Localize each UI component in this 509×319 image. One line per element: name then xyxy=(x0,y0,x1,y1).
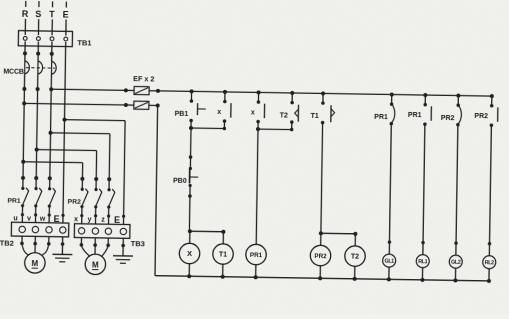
wire E down to TB3 xyxy=(123,121,125,224)
lamp RL2 xyxy=(482,256,495,283)
node T supply label xyxy=(49,1,55,19)
wire X second branch down to PR1 coil xyxy=(256,122,258,245)
coil T2 xyxy=(344,246,365,281)
terminal block TB1 xyxy=(18,31,91,48)
wire T to TB1 xyxy=(51,19,53,35)
wire E TB1 to TB2 xyxy=(63,42,66,223)
coil T1 xyxy=(212,244,233,279)
wire S tap to PR2 pole y xyxy=(37,149,97,152)
motor M2 xyxy=(85,254,106,275)
wire S TB1 to MCCB xyxy=(37,42,39,61)
wire R below MCCB xyxy=(23,74,25,178)
label u v w E xyxy=(13,213,64,224)
ground for TB2 E xyxy=(52,244,72,262)
relay contact X second xyxy=(251,90,265,123)
timer contact T1 xyxy=(310,91,334,124)
node E tap to TB3 xyxy=(62,118,66,122)
node T tap xyxy=(48,131,52,135)
wire T phase to fuse row 1 xyxy=(51,89,126,90)
relay contact PR1 NO xyxy=(408,93,432,126)
wire PB0 to coil bridge xyxy=(188,196,191,231)
wire PR1 NC to lamp GL1 xyxy=(389,124,391,254)
node R tap xyxy=(21,160,25,164)
wire R to TB1 xyxy=(24,19,26,35)
lamp RL1 xyxy=(416,255,429,282)
wire PB1 branch down xyxy=(190,121,193,157)
wire PR1 NO to lamp RL1 xyxy=(423,124,425,254)
wire S to TB1 xyxy=(37,19,39,35)
timer contact T2 xyxy=(280,91,299,124)
relay contact X holding xyxy=(217,90,231,123)
wire T tap to PR2 pole z xyxy=(51,132,110,135)
wire R tap to PR2 pole x xyxy=(23,161,82,164)
relay contact PR2 NC xyxy=(441,93,462,126)
wire S below MCCB xyxy=(36,74,38,178)
coil PR1 xyxy=(245,244,266,279)
contactor PR1 main poles xyxy=(7,176,56,223)
wire X holding to PB1 branch xyxy=(223,121,225,128)
wire T1 branch down xyxy=(321,123,323,234)
ground for TB3 E xyxy=(113,245,133,263)
pushbutton PB0 xyxy=(173,155,199,198)
wire T below MCCB xyxy=(50,74,52,178)
fuse EF lower xyxy=(124,101,160,110)
wires TB2 to motor 1 xyxy=(20,236,64,256)
coil X xyxy=(179,243,200,278)
motor M1 xyxy=(25,253,46,274)
wire PR2 NO to lamp RL2 xyxy=(489,125,491,255)
lamp GL1 xyxy=(382,254,395,281)
wire T TB1 to MCCB xyxy=(51,42,53,61)
relay contact PR2 NO xyxy=(474,94,498,127)
wire E tap across xyxy=(65,119,126,122)
coil PR2 xyxy=(310,245,331,280)
wire R TB1 to MCCB xyxy=(24,41,26,60)
wire T2 to X second branch xyxy=(291,122,293,129)
node S tap xyxy=(35,148,39,152)
lamp GL2 xyxy=(449,255,462,282)
wire bridge X T1 xyxy=(188,229,192,233)
wire top control rail xyxy=(158,91,492,96)
contactor PR2 main poles xyxy=(67,177,115,224)
wire bridge PR2 T2 xyxy=(319,231,323,235)
wires TB3 to motor 2 xyxy=(79,238,125,258)
node S supply label xyxy=(35,1,41,19)
pushbutton PB1 xyxy=(174,89,206,122)
wire bottom control rail xyxy=(155,276,490,281)
circuit breaker MCCB xyxy=(3,61,56,77)
relay contact PR1 NC xyxy=(374,92,395,125)
wire left control rail xyxy=(155,105,158,275)
fuse EF upper xyxy=(124,86,160,95)
label x y z E xyxy=(74,214,125,225)
node R supply label xyxy=(22,1,29,19)
wire E to TB1 xyxy=(65,20,67,36)
terminal block TB2 xyxy=(0,222,69,249)
terminal block TB3 xyxy=(74,224,145,249)
node E supply label xyxy=(63,1,69,19)
wire R phase to fuse row 2 xyxy=(24,103,126,105)
wire PR2 NC to lamp GL2 xyxy=(456,125,458,255)
